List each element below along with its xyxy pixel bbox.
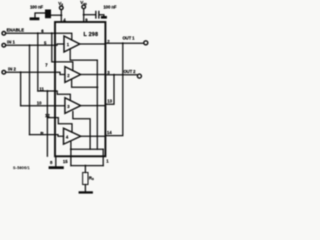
wire pin 1	[71, 148, 103, 150]
node sense pair A	[96, 86, 98, 88]
svg-text:Rs: Rs	[89, 175, 94, 181]
wire pin 13 row inside	[81, 105, 106, 107]
op-amp U4	[64, 128, 81, 144]
svg-text:S-5806/1: S-5806/1	[13, 166, 30, 170]
node IN2 branch	[20, 71, 22, 73]
input terminal ENABLE	[2, 32, 6, 36]
supply terminal Vs	[60, 6, 64, 10]
svg-text:ENABLE: ENABLE	[7, 28, 25, 33]
wire IN1 to pin 5 and amp 1	[6, 44, 64, 45]
wire sense amp2	[72, 79, 98, 87]
wire enable to amp 4	[55, 118, 72, 133]
svg-text:OUT 1: OUT 1	[123, 35, 136, 40]
node on pin 10 row	[29, 105, 31, 107]
op-amp U2	[65, 67, 81, 83]
node sense pair B	[70, 148, 72, 150]
svg-text:100 nF: 100 nF	[30, 4, 43, 9]
node OUT1	[122, 42, 124, 44]
resistor Rs	[83, 173, 88, 185]
wire C2 right lead	[100, 15, 104, 16]
wire Vs to pin 4	[60, 10, 62, 22]
svg-text:12: 12	[45, 113, 50, 118]
op-amp U3	[65, 98, 81, 114]
node enable branch 1	[37, 32, 39, 34]
ground bar Rs	[79, 191, 93, 193]
wire enable to amp 2	[52, 33, 73, 70]
node Vs junction	[60, 14, 62, 16]
terminal OUT1	[144, 41, 148, 45]
wire pin 10 row to amp 3 input	[21, 105, 65, 107]
svg-text:IN 2: IN 2	[8, 66, 16, 71]
wire C1 right lead	[52, 14, 62, 16]
IC body L298 outline	[55, 22, 105, 156]
wire OUT1 row pin 2	[80, 43, 105, 45]
wire sense rail pair A	[96, 60, 98, 149]
wire Vss to pin 9	[83, 9, 85, 22]
ground bar pin 8	[49, 166, 64, 169]
node enable at pin 6	[54, 32, 56, 34]
wire to C2	[84, 14, 96, 16]
wire C1 left lead	[35, 13, 45, 17]
svg-text:Vs: Vs	[58, 1, 63, 7]
node Vss junction	[83, 14, 85, 16]
svg-text:100 nF: 100 nF	[103, 5, 116, 10]
svg-text:L 298: L 298	[84, 32, 99, 38]
svg-text:13: 13	[107, 98, 112, 103]
svg-text:11: 11	[39, 86, 44, 91]
wire pin 11 row	[38, 90, 55, 92]
capacitor C2 100nF plates	[95, 11, 96, 19]
svg-text:OUT 2: OUT 2	[124, 69, 137, 74]
wire IN2 down to pin 10 row	[20, 72, 22, 106]
wire pin 12 row	[47, 117, 55, 119]
wire enable to pin 11	[37, 33, 39, 91]
terminal OUT2	[137, 74, 141, 78]
wire pin 2 to pin 14 connector	[105, 43, 123, 135]
wire down to Rs	[84, 166, 86, 173]
ground bar C2	[101, 16, 107, 19]
svg-text:14: 14	[107, 130, 112, 135]
wire sense amp1	[70, 49, 97, 60]
node OUT2	[113, 74, 115, 76]
node sense center	[84, 165, 86, 167]
wire sense amp3	[73, 112, 90, 150]
wire sense amp4	[70, 142, 72, 149]
svg-text:R: R	[40, 131, 44, 137]
wire down from pin11 row to bottom	[46, 91, 48, 156]
svg-text:10: 10	[37, 101, 42, 106]
node IN1 branch	[29, 44, 31, 46]
ground bar C1	[30, 17, 40, 20]
wire ENABLE to pin 6 and into chip	[6, 33, 72, 40]
node pin 11 row	[46, 90, 48, 92]
supply terminal Vss	[82, 5, 86, 9]
svg-text:IN 1: IN 1	[7, 39, 15, 44]
svg-text:Vss: Vss	[80, 0, 87, 6]
wire sense join bar	[71, 165, 103, 167]
input terminal IN 2	[2, 70, 6, 74]
wire Rs to ground	[84, 185, 86, 192]
wire enable B to amp 3	[55, 91, 70, 100]
input terminal IN 1	[2, 43, 6, 47]
node enable branch 2	[51, 32, 53, 34]
wire pin 8 ground stub	[55, 156, 57, 166]
wire OUT2 row pin 3	[81, 74, 106, 76]
capacitor C1 100nF (filled body)	[45, 10, 51, 19]
wire pin 14 row inside	[81, 135, 106, 137]
wire IN2 to pin 7 and amp 2	[6, 72, 65, 74]
op-amp U1	[64, 36, 80, 52]
svg-text:15: 15	[63, 159, 68, 164]
wire IN1 down to R row / amp 4	[29, 45, 31, 134]
wire R row to amp 4 input	[30, 135, 64, 137]
wire pin 3 to pin 13 connector	[105, 75, 114, 105]
wire pin 15	[70, 149, 72, 165]
